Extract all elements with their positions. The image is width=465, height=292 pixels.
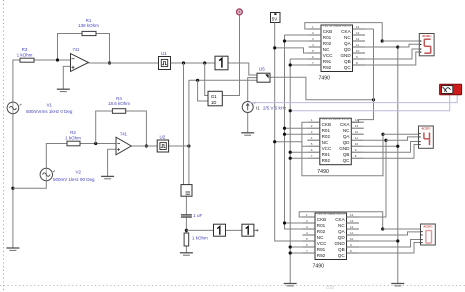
wire V2 bottom to left rail (13, 181, 46, 188)
node M: VCC tap 2 (273, 140, 276, 143)
svg-text:d1b: d1b (326, 285, 335, 291)
wire U1 QA to CKB loop (305, 23, 382, 41)
wire buffer U6 output to U5 input 1 (228, 63, 257, 75)
node U: R9 tap 3 (289, 157, 292, 160)
node F: junction clock line / CKA column (372, 98, 375, 101)
svg-text:V2: V2 (76, 169, 82, 174)
wire R0 bus to U2 R02 (285, 133, 308, 135)
wire R0 bus to U2 R01 (285, 127, 308, 129)
node C: junction U1 output branch down (182, 61, 185, 64)
wire clock column to U1 CKA and down to U2 CKA (351, 29, 373, 122)
wire probe channel B (lavender) (290, 95, 450, 111)
wire display3 QD feed (359, 232, 421, 235)
wire RC node to buffer U7 (186, 229, 213, 231)
node AE: lavender tap on R9 bus (289, 109, 292, 112)
ground right column (391, 284, 404, 286)
wire node C down to gate U3 input 1 (183, 63, 185, 185)
node E: junction on net Q feeding latch D input (196, 79, 199, 82)
wire R4 feedback right to op-amp2 output (126, 111, 147, 146)
wire R9 bus to U1 R91 (290, 58, 308, 60)
wire R0 bus to U1 R01 (285, 34, 309, 36)
measurement device U1 (159, 51, 171, 70)
gate U3 (181, 185, 192, 197)
resistor R3 (17, 47, 34, 62)
wire latch U4 output to probe net (222, 15, 239, 96)
buffer gate U6 (215, 56, 228, 70)
ground below I1 (241, 133, 254, 135)
svg-text:741: 741 (120, 131, 128, 136)
node I: junction op-amp2 output/feedback (145, 144, 148, 147)
node W: R9 tap 5 (289, 251, 292, 254)
node K: RC node (185, 229, 188, 232)
wire R9 bus to U1 R92 (290, 64, 308, 66)
seven segment display D3 showing 0 (421, 224, 436, 245)
svg-text:U1: U1 (161, 51, 167, 56)
wire op-amp2 noninverting input to ground (108, 149, 116, 176)
svg-text:1 kOhm: 1 kOhm (17, 52, 33, 57)
seven segment display D1 showing 5 (419, 34, 434, 56)
wire VCC bus (275, 23, 310, 242)
device U5 (257, 67, 270, 83)
wire display2 QC feed (364, 145, 419, 159)
wire op-amp2 output to U2 (131, 145, 157, 147)
node O: R0 tap 2 (283, 127, 286, 130)
wire V1 to R3 (13, 60, 20, 102)
ground below op-amp2 (101, 176, 114, 178)
svg-text:R2: R2 (70, 130, 76, 135)
wire U3 QA to CKB loop (top) (299, 212, 383, 229)
ground bottom left (6, 248, 19, 250)
node B: junction op-amp1 output/feedback (108, 61, 111, 64)
wire display1 QA feed (382, 40, 419, 42)
wire buffer U8 output stub (254, 229, 258, 231)
ground R9 bus (284, 284, 297, 286)
capacitor C1 (181, 213, 203, 218)
wire R5 to ground (185, 246, 187, 253)
latch U4 (208, 91, 222, 106)
wire R3 to op-amp U1A input (34, 59, 70, 61)
sheet border bottom (0, 285, 465, 287)
node R: R0 tap 4 (283, 221, 286, 224)
wire buffer U7 to buffer U8 (225, 229, 242, 231)
node Z: QA3 junction (381, 227, 384, 230)
counter U1 7490 (309, 24, 366, 82)
wire CKA1 stub link (365, 28, 374, 30)
node L: VCC tap 1 (273, 46, 276, 49)
wire probe channel A (lavender) (248, 95, 457, 103)
buffer gate U8 (242, 224, 254, 236)
wire display2 QB feed (364, 142, 419, 153)
wire U2 QD cascade to U3 CKA (359, 140, 386, 217)
node S: R9 tap 1 (289, 63, 292, 66)
svg-text:138 kOhm: 138 kOhm (78, 23, 99, 28)
wire U1 QD / ground column (365, 47, 398, 284)
ground below op-amp1 (57, 89, 70, 91)
probe node marker (237, 9, 243, 15)
buffer gate U7 (214, 224, 226, 236)
svg-text:500mVrms 1kHz 0 Deg: 500mVrms 1kHz 0 Deg (26, 109, 73, 114)
op-amp U1A (71, 47, 89, 72)
wire net Q: from corner at x=189 to U5 lower input (189, 79, 257, 81)
node A: junction R3/op-amp inverting input (56, 58, 59, 61)
wire op-amp1 noninverting input to ground (63, 66, 70, 89)
wire display1 QB feed (365, 49, 419, 59)
wire I1 top to U5 middle input (248, 78, 257, 102)
op-amp U2A (116, 131, 131, 154)
svg-text:18.6 kOhm: 18.6 kOhm (108, 101, 130, 106)
svg-text:1 kOhm: 1 kOhm (192, 236, 208, 241)
svg-text:ABCDEFG: ABCDEFG (421, 127, 431, 131)
svg-text:1 uF: 1 uF (193, 213, 202, 218)
svg-text:500mV 1kHz 90 Deg: 500mV 1kHz 90 Deg (53, 177, 95, 182)
wire display2 QD feed (386, 137, 419, 140)
wire V2 top to R2 (46, 144, 67, 169)
wire vertical net x=189 from net Q corner to gate U3 (188, 80, 190, 184)
ground below R5 (180, 253, 193, 255)
svg-text:1D: 1D (211, 100, 216, 105)
instrument icon XSC1 (440, 84, 462, 95)
node AD: QD2 junction (384, 139, 387, 142)
wire R9 bus (289, 59, 291, 284)
node AC: gnd column junction 3 (396, 239, 399, 242)
wire display3 QC feed (359, 243, 421, 254)
power source 5V (271, 13, 281, 23)
node Y: QA2 junction (381, 133, 384, 136)
source V2 (40, 168, 95, 182)
wire V1 bottom to bottom rail (12, 114, 14, 249)
wire U2 QA to CKB loop (bottom) (302, 122, 383, 176)
wire VCC bus to U2 VCC (275, 142, 308, 147)
svg-text:I1: I1 (256, 105, 260, 110)
counter U2 7490 (307, 117, 364, 175)
node J: junction U2 output on vertical net (187, 144, 190, 147)
wire capacitor C1 to RC node (185, 218, 187, 234)
wire R9 bus to U3 R91 (290, 246, 302, 248)
wire node E down to latch U4 pin 1D (198, 80, 208, 101)
wire R0 reset bus (285, 35, 303, 229)
node P: R0 tap 3 (283, 133, 286, 136)
node AB: gnd column junction 2 (396, 145, 399, 148)
resistor R5 (184, 233, 208, 246)
wire node D down to latch U4 pin C1 (205, 63, 208, 96)
wire display1 QC feed (365, 52, 419, 65)
measurement device U2 (157, 135, 168, 152)
node G: junction V2 return on left rail (11, 187, 14, 190)
wire op-amp1 output to U1 (89, 62, 159, 64)
wire R9 bus to U2 R92 (290, 157, 307, 159)
svg-text:U5: U5 (259, 67, 265, 72)
resistor R1 (78, 18, 99, 36)
node T: R9 tap 2 (289, 151, 292, 154)
node AF: buffer output stub end (256, 229, 258, 231)
wire R1 feedback right to output (96, 34, 110, 64)
gate U3 output to capacitor C1 (185, 196, 187, 214)
node D: junction to latch clock branch (203, 61, 206, 64)
wire R4 feedback left (96, 111, 113, 144)
wire U2 output to gate U3 input 2 (169, 145, 189, 147)
wire U1 output to buffer U6 (171, 62, 216, 64)
wire display2 QA feed (383, 133, 419, 135)
wire VCC bus to U1 VCC (275, 48, 309, 53)
wire R0 bus to U1 R02 (285, 40, 309, 42)
svg-text:ABCDEFG: ABCDEFG (423, 225, 433, 229)
node H: junction R2/R4 feedback (94, 142, 97, 145)
seven segment display D2 showing 4 (419, 126, 434, 148)
wire R9 bus to U2 R91 (290, 151, 307, 153)
svg-text:V1: V1 (47, 102, 53, 107)
sheet border left (3, 0, 5, 292)
wire display1 QD feed (398, 44, 420, 47)
wire R2 to op-amp2 input (80, 143, 117, 145)
svg-text:741: 741 (73, 47, 81, 52)
counter U3 7490 (303, 212, 360, 270)
node V: R9 tap 4 (289, 245, 292, 248)
resistor R2 (65, 130, 81, 146)
svg-text:R3: R3 (22, 47, 28, 52)
source I1 (242, 102, 287, 113)
wire display3 QA feed (383, 228, 421, 230)
svg-text:1 kOhm: 1 kOhm (65, 136, 81, 141)
svg-text:G1: G1 (211, 94, 217, 99)
wire R1 feedback left (58, 34, 83, 61)
wire U5 output to counter clock node (270, 77, 374, 100)
wire display3 QB feed (359, 240, 421, 248)
wire R0 bus to U3 R01 (285, 222, 303, 224)
node X: QA1 junction (381, 39, 384, 42)
wire U2 GND to ground column (364, 145, 398, 147)
wire U3 GND to ground column (359, 240, 398, 242)
svg-text:5V: 5V (272, 16, 278, 21)
svg-text:ABCDEFG: ABCDEFG (422, 34, 432, 38)
resistor R4 (108, 96, 130, 113)
node N: R0 tap (283, 39, 286, 42)
node AA: QD1 column junction (396, 45, 399, 48)
wire R9 bus to U3 R92 (290, 252, 302, 254)
svg-text:U2: U2 (160, 135, 166, 140)
wire I1 bottom to ground (247, 113, 249, 133)
source V1 (7, 102, 73, 114)
